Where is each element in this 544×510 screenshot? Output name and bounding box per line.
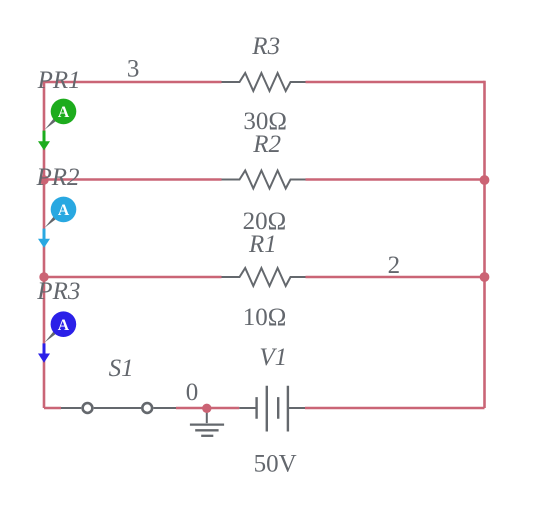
svg-text:A: A bbox=[58, 202, 70, 219]
svg-text:PR1: PR1 bbox=[37, 67, 81, 94]
svg-text:S1: S1 bbox=[109, 355, 134, 382]
svg-text:PR3: PR3 bbox=[36, 278, 80, 305]
svg-text:10Ω: 10Ω bbox=[243, 304, 287, 331]
svg-text:R1: R1 bbox=[248, 231, 277, 258]
svg-text:3: 3 bbox=[127, 56, 139, 83]
svg-text:R2: R2 bbox=[252, 131, 281, 158]
svg-text:A: A bbox=[58, 104, 70, 121]
svg-text:A: A bbox=[58, 317, 70, 334]
svg-text:0: 0 bbox=[186, 379, 199, 406]
svg-text:R3: R3 bbox=[251, 33, 280, 60]
svg-text:20Ω: 20Ω bbox=[243, 208, 287, 235]
svg-text:PR2: PR2 bbox=[36, 164, 80, 191]
svg-text:V1: V1 bbox=[259, 344, 287, 371]
svg-text:50V: 50V bbox=[254, 451, 297, 478]
svg-text:30Ω: 30Ω bbox=[243, 108, 287, 135]
svg-text:2: 2 bbox=[388, 252, 401, 279]
